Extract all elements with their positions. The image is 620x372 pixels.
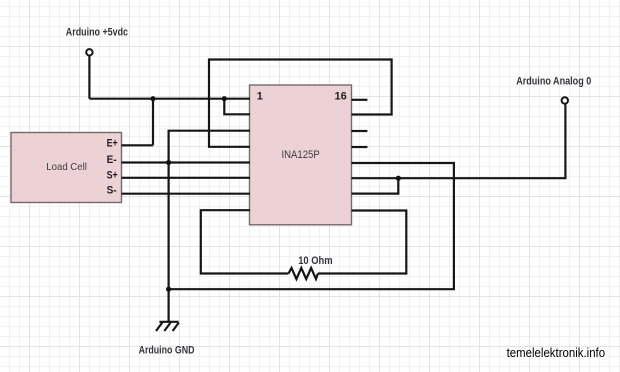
resistor R1 10 Ohm zigzag (289, 268, 318, 279)
wire resistor right lead to U1 pin 9 (318, 211, 406, 274)
U1 pin 14 stub (352, 130, 368, 132)
wire U1 pin 12 to ground loop (169, 163, 454, 289)
svg-text:Arduino GND: Arduino GND (139, 345, 195, 357)
U1 pin 13 stub (352, 146, 368, 148)
ground symbol (156, 322, 179, 331)
wire +5vdc terminal drop (88, 56, 90, 99)
svg-text:Arduino +5vdc: Arduino +5vdc (66, 27, 128, 39)
svg-text:S-: S- (107, 184, 117, 196)
svg-text:Load Cell: Load Cell (46, 161, 87, 173)
wire U1 pin 8 to resistor left lead (201, 210, 289, 273)
wire +5V rail to U1 pin 1 (89, 98, 250, 100)
wire S- from load cell to U1 pin 7 (122, 193, 251, 195)
svg-text:INA125P: INA125P (282, 149, 320, 161)
svg-text:E-: E- (107, 154, 117, 166)
wire S+ from load cell to U1 pin 6 (122, 177, 251, 179)
wire E+ riser to +5V rail (152, 99, 154, 146)
wire E- from load cell to U1 pin 5 (122, 161, 251, 163)
wire U1 pin 11 to Arduino Analog 0 (352, 104, 566, 179)
wire E+ from load cell (122, 144, 154, 146)
load cell LC1 body (11, 133, 122, 203)
junction dot ground loop (166, 287, 171, 292)
terminal Arduino Analog 0 (562, 97, 568, 103)
svg-text:10 Ohm: 10 Ohm (298, 255, 333, 267)
junction dot output/pin10 (396, 176, 401, 181)
junction dot +5V/pin2 jumper (222, 96, 227, 101)
wire U1 pin 10 jumper to output net (352, 178, 399, 193)
svg-text:temelelektronik.info: temelelektronik.info (507, 345, 605, 360)
svg-text:E+: E+ (107, 137, 118, 149)
wire E- net down to ground (168, 163, 170, 322)
wire U1 pin 3 to E- net (169, 131, 250, 163)
junction dot +5V/E+ (150, 96, 155, 101)
svg-text:1: 1 (257, 91, 263, 103)
wire top loop U1 pin 4 to U1 pin 15 (209, 60, 392, 147)
junction dot E-/pin3 (166, 160, 171, 165)
wire +5V jumper to U1 pin 2 (224, 99, 250, 115)
terminal Arduino +5vdc (86, 49, 92, 55)
svg-text:S+: S+ (107, 170, 118, 182)
svg-text:Arduino Analog 0: Arduino Analog 0 (516, 76, 591, 88)
U1 pin 16 stub (352, 99, 368, 101)
op-amp U1 INA125P body (250, 85, 352, 225)
svg-text:16: 16 (335, 91, 347, 103)
